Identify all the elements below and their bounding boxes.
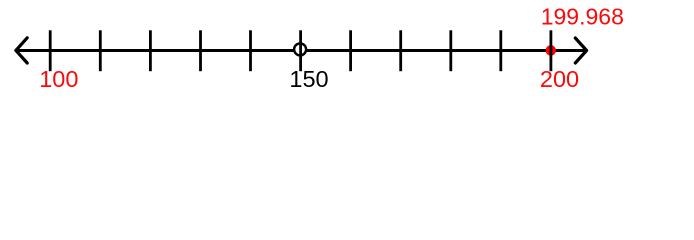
open circle marker at 150 [294,43,306,55]
tick at 190 [499,30,502,71]
svg-text:150: 150 [289,66,328,92]
svg-text:100: 100 [39,66,78,92]
tick at 120 [149,30,152,71]
svg-text:199.968: 199.968 [541,4,624,30]
tick at 100 [49,30,52,71]
tick at 170 [399,30,402,71]
number line axis [17,49,586,52]
tick at 180 [449,30,452,71]
tick at 110 [99,30,102,71]
tick at 200 [550,30,553,71]
tick at 150 [299,30,302,71]
left arrowhead [16,38,27,63]
tick at 140 [249,30,252,71]
tick at 130 [199,30,202,71]
red point marker at 199.968 [546,45,557,56]
tick at 160 [349,30,352,71]
right arrowhead [575,38,586,63]
svg-text:200: 200 [540,66,579,92]
